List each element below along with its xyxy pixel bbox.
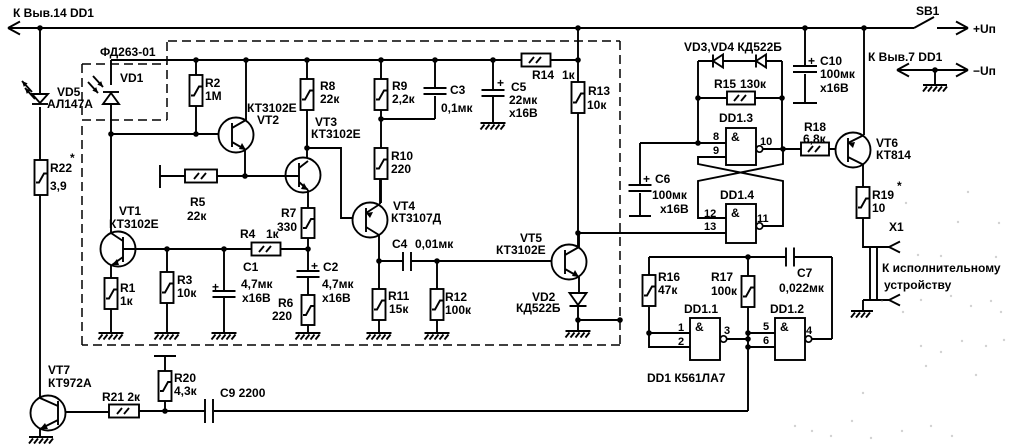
ground VT7 <box>29 436 53 438</box>
svg-text:R2: R2 <box>205 76 221 90</box>
resistor R8 <box>306 60 308 158</box>
svg-text:100мк: 100мк <box>652 188 688 202</box>
svg-text:R12: R12 <box>445 290 467 304</box>
resistor R18 <box>783 148 848 150</box>
resistor R4 <box>252 243 281 256</box>
resistor R22 <box>35 160 48 195</box>
wire VT1 collector line <box>136 248 308 250</box>
svg-text:КТ3102Е: КТ3102Е <box>496 243 546 257</box>
svg-text:х16В: х16В <box>242 291 271 305</box>
svg-text:К исполнительному: К исполнительному <box>882 261 1001 275</box>
svg-text:1к: 1к <box>120 294 134 308</box>
capacitor C2 electrolytic <box>307 249 309 295</box>
connector X1 <box>863 218 889 247</box>
svg-text:+Uп: +Uп <box>973 22 996 36</box>
svg-text:+: + <box>808 54 815 68</box>
svg-text:&: & <box>731 206 740 220</box>
svg-text:С5: С5 <box>511 80 527 94</box>
wire pin9 cross-coupling from DD1.4 output <box>698 157 783 226</box>
svg-text:устройству: устройству <box>884 278 952 292</box>
svg-text:*: * <box>897 179 902 193</box>
svg-text:12: 12 <box>704 208 716 220</box>
resistor R19 <box>857 187 870 218</box>
svg-text:SB1: SB1 <box>916 4 940 18</box>
svg-text:АЛ147А: АЛ147А <box>47 97 93 111</box>
svg-text:КТ814: КТ814 <box>876 148 911 162</box>
svg-text:2: 2 <box>678 336 684 348</box>
transistor VT4 KT3107D <box>353 203 388 238</box>
capacitor C5 electrolytic <box>492 60 494 122</box>
svg-text:R4: R4 <box>240 227 256 241</box>
wire oscillator top <box>649 257 832 339</box>
node VT3 collector junction <box>304 145 310 151</box>
scan speckle noise <box>794 191 1005 439</box>
wire feedback to C9 <box>214 347 748 411</box>
node rail junctions <box>37 25 43 31</box>
wire DD1.3 output <box>763 148 783 150</box>
svg-text:КТ972А: КТ972А <box>48 376 92 390</box>
node rail-left arrow to pin14 DD1 <box>8 22 20 35</box>
transistor VT6 KT814 <box>836 133 871 168</box>
transistor VT5 KT3102E <box>552 245 587 280</box>
svg-text:VT7: VT7 <box>48 363 70 377</box>
wire DD1.2 inputs <box>748 333 775 347</box>
svg-text:−Uп: −Uп <box>973 64 996 78</box>
svg-text:R16: R16 <box>658 270 680 284</box>
svg-text:VD1: VD1 <box>120 71 144 85</box>
svg-text:VD3,VD4 КД522Б: VD3,VD4 КД522Б <box>684 40 782 54</box>
resistor R5 <box>160 175 245 177</box>
svg-text:3: 3 <box>724 325 730 337</box>
svg-text:К Выв.14 DD1: К Выв.14 DD1 <box>13 6 94 20</box>
svg-text:22мк: 22мк <box>509 93 538 107</box>
capacitor C4 <box>379 260 437 262</box>
svg-text:0,01мк: 0,01мк <box>415 237 454 251</box>
svg-text:R5: R5 <box>190 195 206 209</box>
svg-text:R9: R9 <box>392 79 408 93</box>
svg-text:4,7мк: 4,7мк <box>241 277 274 291</box>
svg-text:КД522Б: КД522Б <box>516 301 561 315</box>
svg-text:R19: R19 <box>872 188 894 202</box>
node VT2 emitter junction <box>242 173 248 179</box>
svg-text:R10: R10 <box>391 149 413 163</box>
node VD2 ground junction <box>575 317 581 323</box>
capacitor C1 electrolytic <box>223 249 225 332</box>
svg-text:3,9: 3,9 <box>50 179 67 193</box>
svg-text:С4: С4 <box>392 237 408 251</box>
ground R6 <box>296 332 321 334</box>
svg-text:С2: С2 <box>323 260 339 274</box>
svg-text:КТ3102Е: КТ3102Е <box>109 217 159 231</box>
svg-text:DD1.1: DD1.1 <box>684 302 718 316</box>
svg-text:10к: 10к <box>587 98 607 112</box>
resistor R10 <box>375 148 388 179</box>
capacitor C9 <box>205 399 213 423</box>
resistor R9 <box>380 60 382 148</box>
svg-text:R8: R8 <box>320 79 336 93</box>
transistor VT3 KT3102E <box>286 158 321 193</box>
wire VD2 to oscillator <box>578 319 620 321</box>
resistor R1 <box>105 278 118 309</box>
svg-text:100мк: 100мк <box>820 67 856 81</box>
capacitor C3 <box>381 60 435 119</box>
capacitor C10 electrolytic <box>804 28 806 102</box>
transistor VT1 KT3102E <box>101 232 136 267</box>
svg-text:10: 10 <box>872 201 886 215</box>
svg-text:R11: R11 <box>388 289 410 303</box>
wire VD5 branch <box>39 28 41 397</box>
wire DD1.1 output <box>727 338 748 340</box>
svg-text:х16В: х16В <box>322 291 351 305</box>
svg-text:R21 2к: R21 2к <box>102 390 141 404</box>
wire C9 to R21 <box>139 410 205 412</box>
svg-text:DD1 К561ЛА7: DD1 К561ЛА7 <box>647 371 726 385</box>
svg-text:+: + <box>643 172 650 186</box>
svg-text:R1: R1 <box>120 281 136 295</box>
resistor R13 <box>572 82 585 113</box>
photodiode VD1 <box>110 60 112 232</box>
svg-text:0,022мк: 0,022мк <box>779 281 825 295</box>
wire +supply rail <box>8 27 914 29</box>
svg-text:1: 1 <box>678 322 684 334</box>
capacitor C7 <box>786 248 794 267</box>
resistor R3 <box>166 249 168 332</box>
resistor R21 <box>109 405 139 418</box>
svg-text:DD1.2: DD1.2 <box>770 302 804 316</box>
svg-text:С1: С1 <box>243 260 259 274</box>
svg-text:R13: R13 <box>588 84 610 98</box>
svg-text:VT1: VT1 <box>119 204 141 218</box>
ground VD2 <box>566 330 591 332</box>
resistor R14 <box>522 54 551 67</box>
svg-text:22к: 22к <box>187 209 207 223</box>
svg-text:С7: С7 <box>797 266 813 280</box>
svg-text:10: 10 <box>760 136 772 148</box>
wire DD1.1 inputs <box>649 333 690 347</box>
svg-text:КТ3107Д: КТ3107Д <box>391 211 442 225</box>
wire internal supply line <box>111 59 578 61</box>
ground R12 <box>425 332 450 334</box>
svg-text:0,1мк: 0,1мк <box>441 101 474 115</box>
svg-text:100к: 100к <box>711 284 738 298</box>
svg-text:&: & <box>780 320 789 334</box>
svg-text:DD1.3: DD1.3 <box>719 111 753 125</box>
wire to VT4 base <box>307 148 366 218</box>
wire cross-coupling DD1.3 output to DD1.4 pin12 <box>698 149 783 218</box>
resistor R15 <box>698 61 782 149</box>
ground C5 <box>481 122 506 124</box>
svg-text:4,3к: 4,3к <box>174 384 198 398</box>
svg-text:ФД263-01: ФД263-01 <box>100 45 156 59</box>
diode VD2 KD522B <box>570 293 587 305</box>
svg-text:1к: 1к <box>562 68 576 82</box>
svg-text:10к: 10к <box>177 286 197 300</box>
wire VT5 collector to DD1.4 pin 13 <box>578 232 726 234</box>
svg-text:6,8к: 6,8к <box>803 132 827 146</box>
svg-text:+: + <box>497 76 504 90</box>
wire VD1 to VT2 base <box>111 133 232 135</box>
svg-text:4,7мк: 4,7мк <box>322 277 355 291</box>
svg-text:2,2к: 2,2к <box>392 92 416 106</box>
ground R3 <box>155 332 180 334</box>
svg-text:+: + <box>311 259 318 273</box>
svg-text:VT2: VT2 <box>257 113 279 127</box>
node VT4 collector junction <box>376 258 382 264</box>
svg-text:100к: 100к <box>445 303 472 317</box>
svg-text:*: * <box>70 151 75 165</box>
ground X1 <box>862 300 864 311</box>
svg-text:R20: R20 <box>174 371 196 385</box>
transistor VT7 KT972A <box>31 396 66 431</box>
ground R1 <box>99 332 124 334</box>
svg-text:С10: С10 <box>820 54 842 68</box>
resistor R11 <box>378 261 380 332</box>
node C3 junction <box>378 116 384 122</box>
svg-text:DD1.4: DD1.4 <box>720 188 754 202</box>
node VT5 collector junction <box>575 230 581 236</box>
resistor R7 <box>302 208 315 238</box>
svg-text:R14: R14 <box>532 68 554 82</box>
resistor R17 <box>747 257 749 347</box>
capacitor C6 electrolytic <box>640 143 698 215</box>
svg-text:15к: 15к <box>389 302 409 316</box>
wire pin8 <box>698 142 726 144</box>
svg-text:х16В: х16В <box>660 202 689 216</box>
wire C4 to VT5 base <box>437 260 565 262</box>
resistor R6 <box>302 295 315 325</box>
svg-text:&: & <box>731 130 740 144</box>
svg-text:6: 6 <box>763 335 769 347</box>
svg-text:R3: R3 <box>177 273 193 287</box>
svg-text:47к: 47к <box>658 283 678 297</box>
svg-text:&: & <box>695 320 704 334</box>
svg-text:R6: R6 <box>278 296 294 310</box>
svg-text:220: 220 <box>272 309 292 323</box>
svg-text:4: 4 <box>806 325 813 337</box>
svg-text:КТ3102Е: КТ3102Е <box>311 127 361 141</box>
svg-text:R7: R7 <box>281 206 297 220</box>
node VT5 base junction <box>434 258 440 264</box>
svg-text:220: 220 <box>391 162 411 176</box>
resistor R2 <box>195 60 197 134</box>
svg-text:R15: R15 <box>714 77 736 91</box>
svg-text:13: 13 <box>704 221 716 233</box>
ground R11 <box>367 332 392 334</box>
switch SB1 <box>914 17 934 28</box>
svg-text:R17: R17 <box>711 270 733 284</box>
wire R14 to rail <box>577 28 579 82</box>
svg-text:5: 5 <box>763 321 769 333</box>
svg-text:С3: С3 <box>450 83 466 97</box>
svg-text:С9 2200: С9 2200 <box>220 386 266 400</box>
transistor VT2 KT3102E <box>219 118 254 153</box>
svg-text:+: + <box>212 280 219 294</box>
dashed box photo-module FD263-01 <box>82 42 167 120</box>
dashed box amplifier unit <box>82 41 620 345</box>
ground C1 <box>212 332 237 334</box>
svg-text:К Выв.7 DD1: К Выв.7 DD1 <box>868 50 943 64</box>
svg-text:130к: 130к <box>740 77 767 91</box>
svg-text:х16В: х16В <box>509 106 538 120</box>
svg-text:11: 11 <box>757 213 769 225</box>
svg-text:22к: 22к <box>320 92 340 106</box>
diode VD5 AL147A emitting <box>32 94 48 103</box>
resistor R20 <box>164 357 166 411</box>
resistor R12 <box>436 261 438 332</box>
svg-text:С6: С6 <box>655 172 671 186</box>
diodes VD3 VD4 line <box>698 60 782 62</box>
svg-text:X1: X1 <box>889 220 904 234</box>
svg-text:R22: R22 <box>50 161 72 175</box>
svg-text:1М: 1М <box>205 89 222 103</box>
diode VD3 <box>712 55 714 68</box>
node DD1.1 input junction <box>646 330 652 336</box>
svg-text:330: 330 <box>277 220 297 234</box>
resistor R16 <box>648 257 650 333</box>
svg-text:9: 9 <box>713 145 719 157</box>
diode VD4 <box>755 55 757 68</box>
svg-text:8: 8 <box>713 131 719 143</box>
svg-text:х16В: х16В <box>820 81 849 95</box>
